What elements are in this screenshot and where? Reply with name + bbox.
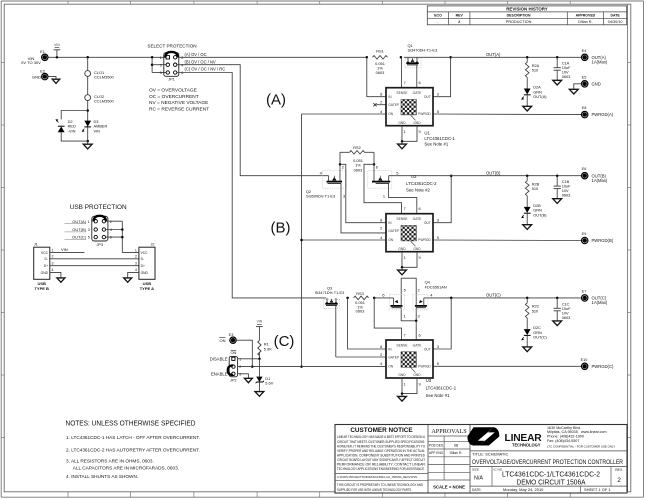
- wire USB D- line: [50, 258, 139, 260]
- ground under U1: [398, 141, 407, 149]
- svg-text:(C) OV / OC / NV / RC: (C) OV / OC / NV / RC: [185, 67, 226, 72]
- svg-text:5.9K: 5.9K: [264, 346, 272, 351]
- svg-text:(A) OV / OC: (A) OV / OC: [185, 52, 207, 57]
- svg-text:TYPE B: TYPE B: [34, 286, 49, 291]
- svg-text:4. INSTALL SHUNTS AS SHOWN.: 4. INSTALL SHUNTS AS SHOWN.: [66, 474, 138, 479]
- svg-text:Milpitas, CA 95035: Milpitas, CA 95035: [547, 430, 578, 434]
- svg-text:C:\PADS PROJECTS\1506A\DC1506A: C:\PADS PROJECTS\1506A\DC1506A-CH_1506NA…: [337, 475, 417, 479]
- svg-text:1: 1: [404, 255, 406, 260]
- svg-text:PRODUCTION: PRODUCTION: [506, 20, 532, 24]
- LED D2A GRN: [522, 85, 548, 100]
- terminal E7 OUT(C): [582, 289, 608, 305]
- wire U1 SENSE to rail: [401, 57, 403, 87]
- svg-text:PWRGD(A): PWRGD(A): [592, 112, 614, 117]
- svg-text:See Note #1: See Note #1: [424, 142, 448, 147]
- svg-text:REV: REV: [456, 14, 464, 18]
- revision history table: [427, 6, 626, 25]
- svg-text:FDC6561AN: FDC6561AN: [425, 285, 447, 290]
- op-amp U3 LTC4361CDC-1: [380, 332, 457, 398]
- wire (A) from JP1 pin 2: [177, 52, 367, 57]
- svg-text:GND: GND: [41, 271, 49, 275]
- wire (B) from JP1 pin 4: [177, 59, 329, 175]
- svg-text:GND: GND: [592, 81, 601, 86]
- section label (C): [274, 333, 295, 350]
- svg-text:1A(Max): 1A(Max): [592, 60, 608, 65]
- svg-text:-VIN: -VIN: [68, 128, 76, 133]
- svg-text:VCC: VCC: [141, 251, 149, 255]
- svg-text:JP3: JP3: [96, 242, 103, 247]
- svg-text:OUT(C): OUT(C): [72, 235, 87, 240]
- wire J2 GND to ground: [128, 272, 139, 278]
- terminal E5 GND: [574, 76, 601, 90]
- wire JP2 pin 3 to ground: [238, 374, 249, 379]
- svg-text:Monday, May 24, 2010: Monday, May 24, 2010: [503, 487, 544, 492]
- ground at J1: [57, 278, 65, 282]
- svg-text:RS1: RS1: [376, 49, 384, 54]
- resistor R1 5.9K: [258, 334, 273, 361]
- wire JP2 pin 1 to R1/D1 node: [238, 358, 260, 360]
- svg-text:3: 3: [239, 372, 241, 376]
- svg-text:GND: GND: [141, 271, 149, 275]
- protection legend text: [149, 88, 209, 113]
- terminal E1 VIN: [21, 50, 48, 65]
- svg-text:GATEP: GATEP: [388, 229, 400, 233]
- svg-text:PWRGD: PWRGD: [418, 365, 431, 369]
- svg-text:3: 3: [88, 228, 90, 232]
- ground under D2B: [523, 214, 532, 230]
- svg-text:3. ALL RESISTORS ARE IN OHMS,: 3. ALL RESISTORS ARE IN OHMS, 0603.: [66, 459, 154, 464]
- LED D2B GRN: [522, 203, 548, 218]
- svg-text:9: 9: [419, 129, 421, 134]
- wire enable line JP2 pin 2 to U3 ON: [238, 366, 386, 368]
- svg-text:JP2: JP2: [230, 378, 236, 382]
- svg-text:2: 2: [380, 352, 382, 357]
- svg-text:OUT: OUT: [424, 347, 431, 351]
- svg-text:PCB DES.: PCB DES.: [429, 443, 444, 447]
- wire U2 SENSE from sense node: [364, 164, 402, 213]
- svg-text:1630 McCarthy Blvd.: 1630 McCarthy Blvd.: [547, 426, 581, 430]
- svg-text:OUT(C): OUT(C): [486, 293, 501, 298]
- wire USB D+ line: [50, 265, 139, 267]
- svg-text:5: 5: [88, 236, 90, 240]
- svg-text:1A(Max): 1A(Max): [592, 300, 608, 305]
- customer notice box: [335, 427, 428, 492]
- svg-text:2: 2: [110, 220, 112, 224]
- svg-text:2: 2: [458, 20, 460, 24]
- svg-text:1: 1: [135, 248, 137, 252]
- svg-text:0V TO 30V: 0V TO 30V: [21, 60, 41, 65]
- svg-text:ON: ON: [220, 338, 226, 343]
- svg-text:3: 3: [418, 314, 420, 319]
- wire U1 IN from rail: [367, 57, 386, 96]
- svg-text:USB PROTECTION: USB PROTECTION: [70, 204, 127, 211]
- svg-text:3: 3: [160, 63, 162, 67]
- svg-text:APP ENG.: APP ENG.: [429, 451, 444, 455]
- svg-text:ON: ON: [388, 365, 394, 369]
- ground at E5: [569, 89, 578, 94]
- resistor R2A 510: [525, 57, 539, 88]
- capacitor C1B 10uF: [554, 176, 572, 198]
- svg-text:APPROVALS: APPROVALS: [431, 428, 467, 435]
- wire U1 OUT to rail: [433, 56, 452, 97]
- svg-text:THIS CIRCUIT IS PROPRIETARY TO: THIS CIRCUIT IS PROPRIETARY TO LINEAR TE…: [337, 483, 423, 487]
- svg-text:2: 2: [239, 365, 241, 369]
- connector J2 USB TYPE A: [135, 242, 155, 290]
- svg-text:510: 510: [532, 186, 539, 191]
- svg-text:(B): (B): [271, 220, 291, 237]
- svg-text:E6: E6: [582, 167, 587, 171]
- svg-text:GATE: GATE: [413, 217, 423, 221]
- svg-text:9: 9: [419, 255, 421, 260]
- LED D2 RED -VIN: [56, 119, 76, 134]
- svg-text:6: 6: [110, 236, 112, 240]
- resistor RS2 0.051: [339, 145, 376, 172]
- svg-text:Dilian R.: Dilian R.: [578, 20, 592, 24]
- svg-text:1: 1: [88, 220, 90, 224]
- wire PWRGD(B) to E9: [433, 239, 581, 242]
- svg-text:GND: GND: [413, 247, 421, 251]
- wire U3 SENSE from rail: [374, 298, 401, 340]
- svg-text:www.linear.com: www.linear.com: [581, 430, 607, 434]
- svg-text:LTC4361CDC-1: LTC4361CDC-1: [424, 136, 455, 141]
- svg-text:OUT(B): OUT(B): [72, 227, 86, 232]
- LED D2C GRN: [522, 325, 548, 340]
- wire E2 to ground: [48, 77, 56, 80]
- svg-text:0603: 0603: [354, 167, 363, 172]
- svg-text:4: 4: [135, 268, 137, 272]
- svg-text:NOTES: UNLESS OTHERWISE SPECIF: NOTES: UNLESS OTHERWISE SPECIFIED: [66, 421, 196, 428]
- svg-text:D-: D-: [141, 257, 144, 261]
- ground under C1C: [553, 311, 562, 326]
- svg-text:Si3471DH-T1-E3: Si3471DH-T1-E3: [315, 290, 345, 295]
- ground under C1B: [553, 189, 562, 204]
- svg-text:D+: D+: [141, 264, 145, 268]
- svg-text:APPROVED: APPROVED: [576, 14, 596, 18]
- svg-text:E10: E10: [581, 358, 588, 362]
- svg-text:CCLM3500: CCLM3500: [94, 75, 115, 80]
- svg-text:See Note #1: See Note #1: [426, 393, 450, 398]
- svg-text:0603: 0603: [562, 193, 571, 198]
- svg-text:E1: E1: [40, 50, 45, 54]
- ground at JP2 pin 3: [244, 378, 252, 382]
- svg-text:VIN: VIN: [54, 43, 60, 47]
- svg-text:VIN: VIN: [94, 128, 101, 133]
- wire U3 OUT to rail: [433, 298, 451, 349]
- power flag VIN: [54, 43, 61, 58]
- jumper JP3: [65, 216, 112, 247]
- svg-text:6: 6: [382, 292, 384, 297]
- ground at J2: [124, 278, 132, 282]
- svg-text:LTC4361CDC-1: LTC4361CDC-1: [426, 386, 457, 391]
- svg-text:1: 1: [239, 357, 241, 361]
- wire OUT(C) rail segment through Q4: [374, 293, 581, 300]
- svg-text:E4: E4: [582, 49, 587, 53]
- svg-text:SELECT PROTECTION: SELECT PROTECTION: [147, 44, 196, 49]
- resistor R2B 510: [525, 176, 539, 207]
- wire branch to D2: [61, 111, 87, 142]
- USB PROTECTION title: [70, 204, 127, 211]
- svg-text:SIZE: SIZE: [472, 468, 479, 472]
- svg-text:1A(Max): 1A(Max): [592, 178, 608, 183]
- svg-text:PWRGD: PWRGD: [418, 238, 431, 242]
- svg-text:GND: GND: [398, 121, 406, 125]
- svg-text:0603: 0603: [356, 309, 365, 314]
- svg-text:2: 2: [380, 226, 382, 231]
- wire E3 to enable line: [236, 340, 253, 368]
- svg-text:3: 3: [135, 262, 137, 266]
- wire J1 VCC to VIN: [50, 247, 85, 252]
- svg-text:LTC CONFIDENTIAL - FOR CUSTOME: LTC CONFIDENTIAL - FOR CUSTOMER USE ONLY: [547, 445, 615, 449]
- svg-text:1: 1: [383, 193, 385, 198]
- approvals box: [428, 428, 470, 490]
- svg-text:OUT(C): OUT(C): [533, 335, 547, 340]
- svg-text:1: 1: [52, 248, 54, 252]
- LED D3 AMBER VIN: [82, 119, 107, 134]
- svg-text:04/30/10: 04/30/10: [608, 20, 623, 24]
- terminal E10 PWRGD(C): [581, 358, 614, 370]
- svg-text:Fax: (408)434-0507: Fax: (408)434-0507: [547, 439, 579, 443]
- title area: [470, 451, 627, 493]
- wire U2 IN from sense node: [340, 164, 386, 222]
- svg-text:APPLICATION. COMPONENT SUBSTI: APPLICATION. COMPONENT SUBSTITUTION AND …: [337, 453, 425, 457]
- svg-text:See Note #2: See Note #2: [406, 188, 430, 193]
- wire U2 GATE from Q2 pin 1: [388, 198, 416, 214]
- svg-text:D+: D+: [44, 264, 48, 268]
- wire PWRGD(A) to E8: [433, 113, 581, 116]
- svg-text:1: 1: [404, 381, 406, 386]
- svg-text:RS2: RS2: [353, 145, 361, 150]
- svg-text:(B) OV / OC / NV: (B) OV / OC / NV: [185, 59, 216, 64]
- transistor Q2 Si3590DV-T1-E3 dual P-FET: [306, 164, 398, 198]
- transistor Q3 Si3471DH-T1-E3: [315, 285, 345, 357]
- svg-text:0603: 0603: [376, 70, 385, 75]
- svg-text:2: 2: [342, 165, 344, 170]
- svg-text:N/A: N/A: [474, 475, 483, 481]
- svg-text:DEMO CIRCUIT 1506A: DEMO CIRCUIT 1506A: [517, 479, 586, 486]
- svg-text:0603: 0603: [562, 74, 571, 79]
- svg-text:7: 7: [404, 206, 406, 211]
- wire J1 GND to ground: [50, 272, 61, 278]
- wire U3 GATE from Q4: [415, 321, 417, 340]
- svg-text:E7: E7: [582, 289, 587, 293]
- svg-text:E5: E5: [582, 76, 587, 80]
- title block frame: [335, 425, 627, 494]
- svg-text:1. LTC4361CDC-1 HAS LATCH -: 1. LTC4361CDC-1 HAS LATCH - OFF AFTER OV…: [66, 435, 200, 440]
- svg-text:2: 2: [418, 288, 420, 293]
- wire R1 to D1: [258, 359, 260, 377]
- wire U2 ON to enable bus: [302, 239, 387, 241]
- svg-text:REVISION HISTORY: REVISION HISTORY: [506, 7, 548, 12]
- svg-text:3: 3: [437, 344, 439, 349]
- svg-text:6: 6: [181, 71, 183, 75]
- svg-text:GND: GND: [413, 373, 421, 377]
- capacitor C1C 10uF: [554, 298, 572, 320]
- wire U3 GATEP from Q3 gate: [336, 356, 386, 358]
- svg-text:8: 8: [380, 92, 382, 97]
- svg-text:4: 4: [52, 268, 54, 272]
- svg-text:OUT: OUT: [424, 221, 431, 225]
- svg-text:3: 3: [343, 193, 345, 198]
- svg-text:510: 510: [532, 68, 539, 73]
- svg-text:CIRCUIT BOARD LAYOUT MAY SIGNI: CIRCUIT BOARD LAYOUT MAY SIGNIFICANTLY A…: [337, 458, 426, 462]
- svg-text:SUPPLIED FOR USE WITH LINEAR T: SUPPLIED FOR USE WITH LINEAR TECHNOLOGY …: [337, 488, 412, 492]
- svg-text:CUSTOMER NOTICE: CUSTOMER NOTICE: [350, 427, 413, 434]
- ground under D2A: [523, 95, 532, 111]
- svg-text:OUT(B): OUT(B): [533, 212, 547, 217]
- svg-text:SCALE = NONE: SCALE = NONE: [433, 485, 465, 490]
- svg-text:5: 5: [437, 361, 439, 366]
- svg-text:ON: ON: [388, 112, 394, 116]
- terminal E4 OUT(A): [582, 49, 608, 65]
- transistor Q1 Si3470DH-T1-E3: [405, 43, 437, 87]
- svg-text:3: 3: [437, 92, 439, 97]
- capacitor C1A 10uF: [554, 57, 572, 79]
- svg-text:5: 5: [437, 109, 439, 114]
- svg-text:ECO: ECO: [434, 14, 442, 18]
- svg-text:GATEP: GATEP: [388, 355, 400, 359]
- connector J1 USB TYPE B: [34, 242, 54, 290]
- svg-text:OUT(A): OUT(A): [72, 219, 86, 224]
- zener D1 5.6V: [256, 376, 274, 386]
- svg-text:Si3590DV-T1-E3: Si3590DV-T1-E3: [306, 193, 335, 198]
- svg-text:1: 1: [404, 129, 406, 134]
- svg-text:U1: U1: [424, 131, 430, 136]
- section label (A): [266, 92, 286, 109]
- jumper JP2 ENABLE/DISABLE: [210, 350, 242, 382]
- svg-text:U3: U3: [426, 378, 432, 383]
- svg-text:ON: ON: [230, 350, 236, 355]
- svg-text:7: 7: [404, 332, 406, 337]
- svg-text:(A): (A): [266, 92, 286, 109]
- terminal E9 PWRGD(B): [582, 232, 614, 244]
- svg-text:GATE: GATE: [413, 91, 423, 95]
- svg-text:OUT(B): OUT(B): [486, 170, 501, 175]
- svg-text:OUT: OUT: [424, 95, 431, 99]
- wire VIN rail from E1 to JP1: [48, 56, 166, 72]
- current limiter CLO1 CCLM3500: [85, 57, 115, 79]
- svg-text:Phone: (408)432-1900: Phone: (408)432-1900: [547, 435, 584, 439]
- svg-text:5.6V: 5.6V: [265, 381, 273, 386]
- svg-text:REV.: REV.: [615, 468, 623, 472]
- svg-text:9: 9: [419, 381, 421, 386]
- svg-text:OUT(A): OUT(A): [533, 94, 547, 99]
- wire OUT(B) rail: [389, 170, 582, 177]
- svg-text:PWRGD(B): PWRGD(B): [592, 238, 614, 243]
- svg-text:E2: E2: [40, 69, 45, 73]
- wire U1 ON to enable bus: [302, 113, 387, 115]
- terminal E8 PWRGD(A): [582, 106, 614, 118]
- resistor RS3 0.051: [346, 291, 375, 314]
- svg-text:GND: GND: [398, 247, 406, 251]
- terminal E6 OUT(B): [582, 167, 608, 183]
- svg-text:SENSE: SENSE: [396, 343, 408, 347]
- svg-text:7: 7: [404, 80, 406, 85]
- svg-text:1: 1: [404, 314, 406, 319]
- svg-text:GND: GND: [32, 74, 41, 79]
- svg-text:J1: J1: [34, 242, 38, 246]
- wire U2 OUT to rail: [433, 174, 452, 222]
- svg-text:HOWEVER, IT REMAINS THE CUSTOM: HOWEVER, IT REMAINS THE CUSTOMER'S RESPO…: [337, 444, 425, 448]
- svg-text:PERFORMANCE OR RELIABILITY.: PERFORMANCE OR RELIABILITY. CONTACT LINE…: [337, 463, 426, 467]
- terminal E3 ON: [219, 333, 236, 344]
- svg-text:LTC4361CDC-1/LTC4361CDC-2: LTC4361CDC-1/LTC4361CDC-2: [502, 471, 600, 478]
- svg-text:ON: ON: [388, 238, 394, 242]
- svg-text:0603: 0603: [562, 315, 571, 320]
- section label (B): [271, 220, 291, 237]
- wire OUT(A) rail: [404, 52, 582, 59]
- svg-text:CCLM3500: CCLM3500: [94, 99, 115, 104]
- svg-text:OC = OVERCURRENT: OC = OVERCURRENT: [149, 94, 199, 100]
- svg-text:J2: J2: [151, 242, 155, 246]
- terminal E2 GND: [32, 69, 48, 79]
- wire PWRGD(C) to E10: [433, 365, 581, 367]
- ground under C1A: [553, 70, 562, 85]
- svg-text:PWRGD(C): PWRGD(C): [592, 364, 614, 369]
- svg-text:OV = OVERVOLTAGE: OV = OVERVOLTAGE: [149, 88, 197, 94]
- svg-text:SB: SB: [454, 443, 459, 447]
- wire U2 GATEP from Q2 pin 3: [341, 197, 386, 233]
- svg-text:2: 2: [52, 255, 54, 259]
- svg-text:TECHNOLOGY APPLICATIONS ENGINE: TECHNOLOGY APPLICATIONS ENGINEERING FOR …: [337, 467, 425, 471]
- svg-text:3: 3: [437, 218, 439, 223]
- svg-text:4: 4: [181, 63, 183, 67]
- svg-text:GND: GND: [398, 373, 406, 377]
- ground under D2C: [523, 336, 532, 352]
- svg-text:LTC4361CDC-2: LTC4361CDC-2: [406, 181, 437, 186]
- op-amp U2 LTC4361CDC-2: [380, 174, 439, 260]
- svg-text:U2: U2: [411, 174, 417, 179]
- svg-text:GATE: GATE: [413, 343, 423, 347]
- svg-text:2: 2: [181, 56, 183, 60]
- wire U2 GND pins to ground: [401, 253, 417, 269]
- svg-text:2. LTC4361CDC-2 HAS AUTORET: 2. LTC4361CDC-2 HAS AUTORETRY AFTER OVER…: [66, 447, 200, 452]
- svg-text:Dilian R.: Dilian R.: [450, 451, 463, 455]
- wire JP3 to J2 VCC: [106, 221, 139, 252]
- svg-text:RS3: RS3: [356, 291, 364, 296]
- svg-text:VCC: VCC: [41, 251, 49, 255]
- svg-text:LINEAR TECHNOLOGY HAS MADE A B: LINEAR TECHNOLOGY HAS MADE A BEST EFFORT…: [337, 435, 426, 439]
- svg-text:3: 3: [52, 262, 54, 266]
- svg-text:ENABLE: ENABLE: [211, 372, 228, 377]
- svg-text:OVERVOLTAGE/OVERCURRENT PROTEC: OVERVOLTAGE/OVERCURRENT PROTECTION CONTR…: [472, 459, 623, 466]
- jumper JP1 SELECT PROTECTION: [147, 44, 196, 82]
- svg-text:GND: GND: [413, 121, 421, 125]
- svg-text:JP1: JP1: [168, 77, 175, 82]
- svg-text:2: 2: [135, 255, 137, 259]
- svg-text:E9: E9: [582, 232, 587, 236]
- svg-text:E3: E3: [229, 333, 234, 337]
- svg-text:5: 5: [404, 288, 406, 293]
- svg-text:SENSE: SENSE: [396, 91, 408, 95]
- power flag VIN above R1: [256, 320, 263, 334]
- svg-text:TYPE A: TYPE A: [140, 286, 154, 291]
- notes text: [66, 421, 200, 480]
- svg-text:(C): (C): [274, 333, 295, 350]
- svg-text:5: 5: [437, 235, 439, 240]
- wire (C) from JP1 pin 6: [177, 67, 326, 298]
- svg-text:8: 8: [380, 218, 382, 223]
- ground under D3: [83, 141, 92, 149]
- no-connect X on U1 GATEP pin 2: [373, 103, 386, 106]
- svg-text:TECHNOLOGY: TECHNOLOGY: [512, 443, 541, 448]
- Linear Technology logo: [468, 426, 616, 449]
- svg-text:NV = NEGATIVE VOLTAGE: NV = NEGATIVE VOLTAGE: [149, 100, 208, 106]
- wire U1 GND pins to ground: [401, 127, 417, 143]
- svg-text:VERIFY PROPER AND RELIABLE OPE: VERIFY PROPER AND RELIABLE OPERATION IN …: [337, 449, 425, 453]
- svg-text:Si3470DH-T1-E3: Si3470DH-T1-E3: [408, 48, 438, 53]
- wire enable bus vertical: [300, 114, 303, 368]
- wire U3 IN from rail: [348, 298, 386, 349]
